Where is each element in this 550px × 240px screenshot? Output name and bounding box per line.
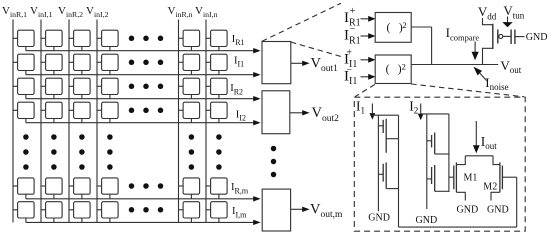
svg-text:(: (	[386, 64, 390, 76]
PMOS drain wire to V_out node	[483, 48, 493, 64]
output block U1	[262, 42, 291, 84]
memristor cell row2 col2	[41, 54, 62, 74]
memristor cell row2 col6	[206, 54, 227, 74]
arrowhead V_out1	[302, 61, 309, 66]
V_tun arrowhead	[502, 22, 512, 27]
memristor cell row2 col5	[179, 54, 200, 74]
output block U2	[262, 91, 290, 134]
memristor cell row2 col4	[97, 54, 118, 74]
memristor cell row3 col1	[13, 78, 34, 99]
column wire V_inI,n	[205, 20, 207, 223]
branch2 top wire	[421, 113, 449, 115]
transistor Q1 channel bar	[385, 119, 387, 153]
ellipsis dots row 3	[129, 84, 164, 90]
arrowhead I_I1−	[368, 74, 375, 80]
transistor Q3 gate bar	[431, 135, 433, 148]
arrowhead I_R1−	[368, 33, 375, 39]
memristor cell row6 col1	[13, 202, 34, 223]
arrowhead into box for I_I,m	[253, 220, 260, 225]
dashed detail box	[354, 97, 525, 231]
transistor M1 drain wire	[456, 156, 465, 165]
dashed zoom line from U1 top-left corner	[262, 3, 341, 41]
ellipsis dots column 6	[216, 134, 222, 170]
I_2 arrow wire	[420, 104, 422, 114]
memristor cell row6 col5	[179, 202, 200, 223]
memristor cell row1 col1	[13, 30, 34, 51]
output block U3	[262, 189, 290, 231]
memristor cell row6 col2	[41, 202, 62, 223]
branch1 top wire	[372, 114, 398, 116]
summing output wire to V_out	[411, 64, 498, 66]
memristor cell row6 col4	[97, 202, 118, 223]
svg-text:(: (	[387, 22, 391, 34]
V_dd source wire	[483, 18, 493, 25]
column wire V_inR,1	[12, 20, 14, 223]
column wire V_inR,n	[178, 20, 180, 223]
input wire I_R1+	[361, 18, 369, 20]
dashed zoom line from lower squaring block left	[355, 85, 375, 97]
memristor cell row4 col4	[97, 102, 118, 123]
branch1 gate-column wire	[377, 115, 379, 211]
memristor cell row6 col6	[206, 202, 227, 223]
bottom feedback wire	[399, 226, 517, 228]
mirror top wire	[465, 155, 493, 157]
memristor cell row4 col3	[69, 102, 90, 123]
memristor cell row5 col6	[206, 178, 227, 199]
I_out arrow wire	[475, 121, 477, 146]
memristor cell row4 col2	[41, 102, 62, 123]
arrowhead V_out2	[302, 110, 309, 115]
memristor cell row3 col2	[41, 78, 62, 99]
memristor cell row5 col4	[97, 178, 118, 199]
row wire I_I1	[26, 74, 254, 76]
ellipsis dots between output blocks	[271, 146, 277, 178]
memristor cell row3 col5	[179, 78, 200, 99]
ellipsis dots column 1	[23, 134, 29, 170]
memristor cell row5 col3	[69, 178, 90, 199]
row wire I_R1	[26, 50, 254, 52]
arrowhead I_I1+	[368, 57, 375, 63]
svg-text:2: 2	[402, 61, 406, 71]
svg-text:M1: M1	[464, 172, 478, 183]
output wire V_out,m	[291, 208, 303, 210]
V_tun arrow wire	[507, 17, 509, 24]
row wire I_I2	[26, 122, 254, 124]
output wire V_out1	[291, 62, 303, 64]
transistor M2 drain wire	[493, 156, 500, 165]
I_noise arrowhead	[474, 67, 483, 76]
I_compare arrowhead	[472, 52, 479, 61]
transistor Q3 gate stub	[427, 140, 432, 142]
column wire V_inI,2	[96, 20, 98, 223]
memristor cell row1 col3	[69, 30, 90, 51]
ellipsis dots row 1	[129, 36, 164, 42]
arrowhead into box for I_I1	[253, 72, 260, 77]
branch2 gate-column wire	[426, 114, 428, 209]
tunneling capacitor right plate	[514, 30, 516, 45]
input wire I_I1+	[361, 59, 369, 61]
transistor M1 source wire	[456, 192, 465, 200]
transistor Q4 gate bar	[431, 167, 433, 184]
svg-text:M2: M2	[483, 181, 497, 192]
memristor cell row3 col3	[69, 78, 90, 99]
memristor cell row3 col4	[97, 78, 118, 99]
arrowhead into box for I_I2	[253, 120, 260, 125]
wire capacitor to GND	[515, 36, 525, 38]
dashed zoom line from lower squaring block right	[411, 84, 524, 97]
memristor cell row5 col2	[41, 178, 62, 199]
transistor M1 channel bar	[455, 162, 457, 192]
PMOS gate bar	[497, 30, 499, 44]
memristor cell row4 col5	[179, 102, 200, 123]
memristor cell row4 col1	[13, 102, 34, 123]
svg-text:GND: GND	[526, 32, 548, 43]
ellipsis dots column 2	[51, 134, 57, 170]
memristor cell row3 col6	[206, 78, 227, 99]
svg-text:GND: GND	[487, 205, 509, 216]
wire joining squaring block outputs	[431, 27, 433, 65]
transistor Q4 channel bar	[434, 165, 436, 191]
svg-text:2: 2	[402, 20, 406, 30]
transistor Q1 gate bar	[382, 120, 384, 133]
transistor M2 gate bar	[501, 166, 503, 190]
input wire I_R1−	[361, 35, 369, 37]
I_noise arrow tail	[480, 73, 487, 80]
svg-text:GND: GND	[416, 215, 438, 226]
I_1 arrowhead	[370, 113, 376, 120]
floating gate wire	[503, 35, 511, 37]
branch1 right rail wire	[398, 115, 400, 227]
transistor Q2 source stub	[386, 188, 398, 190]
squaring block ( )^2 upper	[375, 13, 411, 43]
memristor cell row1 col2	[41, 30, 62, 51]
I_out arrowhead	[473, 145, 480, 153]
I_compare arrow wire	[474, 42, 476, 53]
transistor Q1 source stub	[386, 138, 398, 140]
memristor cell row6 col3	[69, 202, 90, 223]
transistor Q4 source stub	[435, 190, 449, 192]
memristor cell row1 col5	[179, 30, 200, 51]
arrowhead into box for I_R1	[253, 48, 260, 53]
transistor Q3 source stub	[435, 153, 449, 155]
squaring block ( )^2 lower	[375, 55, 411, 84]
wire from upper squaring block output	[411, 26, 431, 28]
ellipsis dots row 6	[129, 207, 164, 213]
memristor cell row1 col6	[206, 30, 227, 51]
memristor cell row2 col1	[13, 54, 34, 74]
row wire I_R2	[26, 98, 254, 100]
M2 gate feedback riser wire	[516, 177, 518, 227]
output wire V_out2	[290, 112, 303, 114]
transistor Q3 channel bar	[434, 133, 436, 155]
I_1 arrow wire	[371, 104, 373, 114]
ellipsis dots row 4	[129, 108, 164, 114]
column wire V_inI,1	[40, 20, 42, 223]
PMOS gate bubble	[499, 34, 503, 38]
arrowhead into box for I_R,m	[253, 196, 260, 201]
ellipsis dots column 3	[79, 134, 85, 170]
PMOS M_comp channel bar	[492, 24, 494, 49]
transistor M2 gate wire	[502, 176, 516, 178]
transistor M2 source wire	[491, 192, 500, 200]
arrowhead into box for I_R2	[253, 96, 260, 101]
branch2 right rail wire	[448, 114, 450, 192]
memristor cell row5 col1	[13, 178, 34, 199]
transistor Q1 gate stub	[378, 125, 383, 127]
tunneling capacitor left plate	[510, 30, 512, 45]
arrowhead V_out,m	[302, 207, 309, 212]
ellipsis dots column 5	[189, 134, 195, 170]
input wire I_I1−	[361, 76, 369, 78]
column wire V_inR,2	[68, 20, 70, 223]
memristor cell row4 col6	[206, 102, 227, 123]
transistor M2 channel bar	[499, 162, 501, 192]
ellipsis dots column 4	[107, 134, 113, 170]
transistor Q2 channel bar	[385, 162, 387, 188]
I_2 arrowhead	[418, 114, 424, 121]
transistor Q2 gate stub	[378, 173, 383, 175]
svg-text:GND: GND	[457, 205, 479, 216]
row wire I_R,m	[26, 198, 254, 200]
ellipsis dots row 5	[129, 183, 164, 189]
dashed zoom line from U1 top-right corner	[291, 42, 345, 58]
ellipsis dots row 2	[129, 60, 164, 66]
memristor cell row2 col3	[69, 54, 90, 74]
arrowhead I_R1+	[368, 16, 375, 22]
transistor M1 gate bar	[453, 166, 455, 190]
transistor M1 gate wire	[449, 176, 454, 178]
memristor cell row5 col5	[179, 178, 200, 199]
memristor cell row1 col4	[97, 30, 118, 51]
transistor Q2 gate bar	[382, 164, 384, 182]
row wire I_I,m	[26, 221, 254, 223]
svg-text:GND: GND	[368, 213, 390, 224]
transistor Q4 gate stub	[427, 178, 432, 180]
